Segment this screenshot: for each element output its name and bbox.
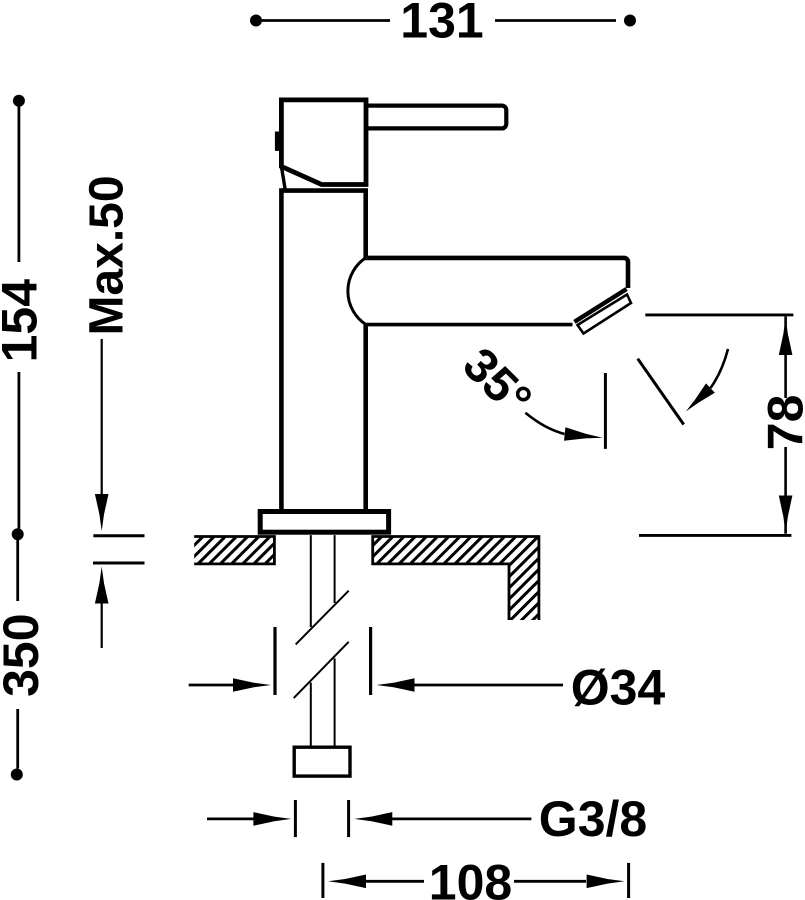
svg-text:78: 78 [758, 395, 805, 451]
svg-text:Ø34: Ø34 [571, 660, 666, 716]
svg-text:154: 154 [0, 279, 47, 363]
svg-text:131: 131 [400, 0, 483, 49]
svg-text:350: 350 [0, 613, 49, 696]
svg-text:Max.50: Max.50 [81, 175, 134, 335]
svg-text:G3/8: G3/8 [539, 791, 647, 847]
svg-text:108: 108 [429, 855, 512, 900]
